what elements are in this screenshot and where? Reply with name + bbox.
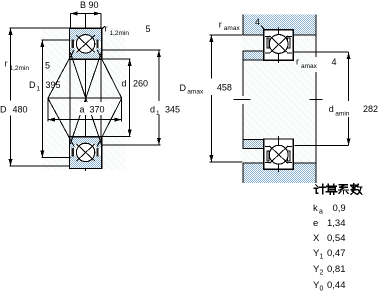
ball — [269, 35, 288, 54]
center axis ticks — [234, 99, 251, 101]
right drawing background texture — [241, 14, 318, 184]
D extension lines — [10, 27, 70, 29]
svg-text:370: 370 — [90, 105, 105, 115]
a dimension line — [48, 119, 122, 121]
white box behind a 370 — [78, 102, 111, 115]
d1 extension lines — [102, 49, 161, 51]
d1 arrows — [157, 50, 161, 57]
centerline of rolling elements (vertical) — [85, 14, 87, 171]
ball contact X — [77, 35, 95, 52]
D1 arrows — [40, 40, 44, 47]
shaft face vertical — [242, 51, 244, 96]
svg-text:0,54: 0,54 — [327, 233, 346, 244]
svg-text:260: 260 — [133, 79, 148, 89]
svg-text:4: 4 — [255, 17, 260, 27]
d dimension line — [129, 59, 131, 137]
svg-text:a: a — [319, 209, 323, 216]
svg-text:0: 0 — [320, 286, 324, 293]
d1 dimension line — [158, 50, 160, 101]
svg-text:D: D — [0, 105, 7, 115]
inner ring band (top of segment) — [70, 137, 101, 143]
d_amin dimension line — [348, 52, 350, 101]
svg-text:amax: amax — [301, 63, 318, 70]
outer/inner ring blue fills — [70, 28, 102, 59]
svg-text:0,81: 0,81 — [327, 264, 346, 275]
outer ring band (bottom) — [70, 158, 101, 168]
cage bars — [72, 148, 74, 156]
shaft shoulder strips — [243, 51, 264, 149]
计 — [314, 184, 326, 194]
D_amax dimension line — [210, 35, 212, 79]
inner ring band — [70, 53, 101, 59]
svg-text:r: r — [5, 59, 8, 69]
系 — [339, 185, 349, 194]
housing top band — [243, 15, 316, 35]
svg-text:395: 395 — [46, 80, 61, 90]
bearing bottom segment — [70, 137, 102, 169]
long crossing diagonals — [70, 53, 101, 145]
housing shoulder lines bottom — [243, 162, 264, 164]
d_amin extensions — [293, 51, 349, 53]
centerline — [278, 28, 280, 64]
dimensions right drawing — [209, 35, 348, 162]
housing right edge full — [315, 15, 317, 57]
r leader top right — [102, 26, 105, 29]
svg-text:X: X — [313, 233, 320, 244]
svg-text:1: 1 — [37, 86, 41, 93]
housing bottom band — [243, 163, 316, 183]
d extension lines — [102, 58, 131, 60]
svg-text:282: 282 — [363, 104, 378, 114]
svg-text:480: 480 — [13, 105, 28, 115]
horizontal line through diamond vertices — [48, 97, 122, 99]
bearing top segment (right drawing, white) — [264, 28, 294, 64]
svg-text:d: d — [329, 104, 334, 114]
d arrows — [128, 59, 132, 66]
D dimension line — [10, 28, 12, 101]
svg-text:amax: amax — [187, 89, 204, 96]
housing left edges — [242, 15, 244, 35]
D1 dimension line — [41, 40, 43, 158]
svg-text:5: 5 — [146, 24, 151, 34]
ball — [76, 143, 94, 161]
svg-text:1,2min: 1,2min — [110, 30, 130, 37]
bearing top segment — [70, 28, 102, 59]
svg-text:458: 458 — [217, 83, 232, 93]
svg-text:1,34: 1,34 — [327, 218, 346, 229]
B arrows (outward) — [71, 12, 78, 16]
数 — [351, 184, 362, 195]
bearing bottom segment (right drawing) — [264, 136, 294, 172]
outer ring band — [70, 29, 101, 39]
ring boundary marks — [265, 36, 271, 38]
housing shoulder lines top — [243, 34, 264, 36]
svg-text:4: 4 — [332, 57, 337, 67]
cage bars — [72, 40, 74, 48]
title 计算系数 drawn as strokes — [314, 184, 362, 195]
left drawing background texture — [42, 28, 126, 171]
cage bars — [267, 38, 269, 48]
svg-text:2: 2 — [320, 270, 324, 277]
svg-text:amax: amax — [224, 25, 241, 32]
svg-text:D: D — [29, 80, 36, 90]
svg-text:r: r — [296, 57, 299, 67]
svg-text:5: 5 — [45, 61, 50, 71]
svg-text:1,2min: 1,2min — [10, 65, 30, 72]
bearing side faces (vertical extensions between segments) — [70, 59, 101, 136]
svg-text:d: d — [150, 105, 155, 115]
a arrows (outward) — [48, 118, 55, 122]
svg-text:d: d — [122, 79, 127, 89]
svg-text:345: 345 — [165, 105, 180, 115]
D1 extension lines — [41, 39, 69, 41]
r_amax leader top — [261, 26, 264, 30]
B dimension line — [71, 13, 101, 15]
svg-text:0,9: 0,9 — [333, 203, 346, 214]
svg-text:1: 1 — [156, 110, 160, 117]
contact-angle diamond between segments — [48, 50, 122, 146]
D arrows — [9, 28, 13, 35]
svg-text:D: D — [180, 83, 187, 93]
算 — [326, 184, 337, 194]
svg-text:r: r — [105, 24, 108, 34]
svg-text:1: 1 — [320, 254, 324, 261]
arrows left drawing — [9, 12, 161, 167]
D_amax extensions — [209, 34, 242, 36]
ball — [76, 35, 94, 53]
svg-text:k: k — [313, 203, 318, 214]
svg-text:a: a — [80, 105, 85, 115]
svg-text:e: e — [313, 218, 318, 229]
svg-text:B 90: B 90 — [80, 0, 99, 10]
svg-text:amin: amin — [335, 111, 349, 118]
svg-text:0,47: 0,47 — [327, 248, 346, 259]
svg-text:0,44: 0,44 — [327, 280, 346, 291]
svg-text:r: r — [219, 20, 222, 30]
a extension lines — [47, 98, 49, 121]
